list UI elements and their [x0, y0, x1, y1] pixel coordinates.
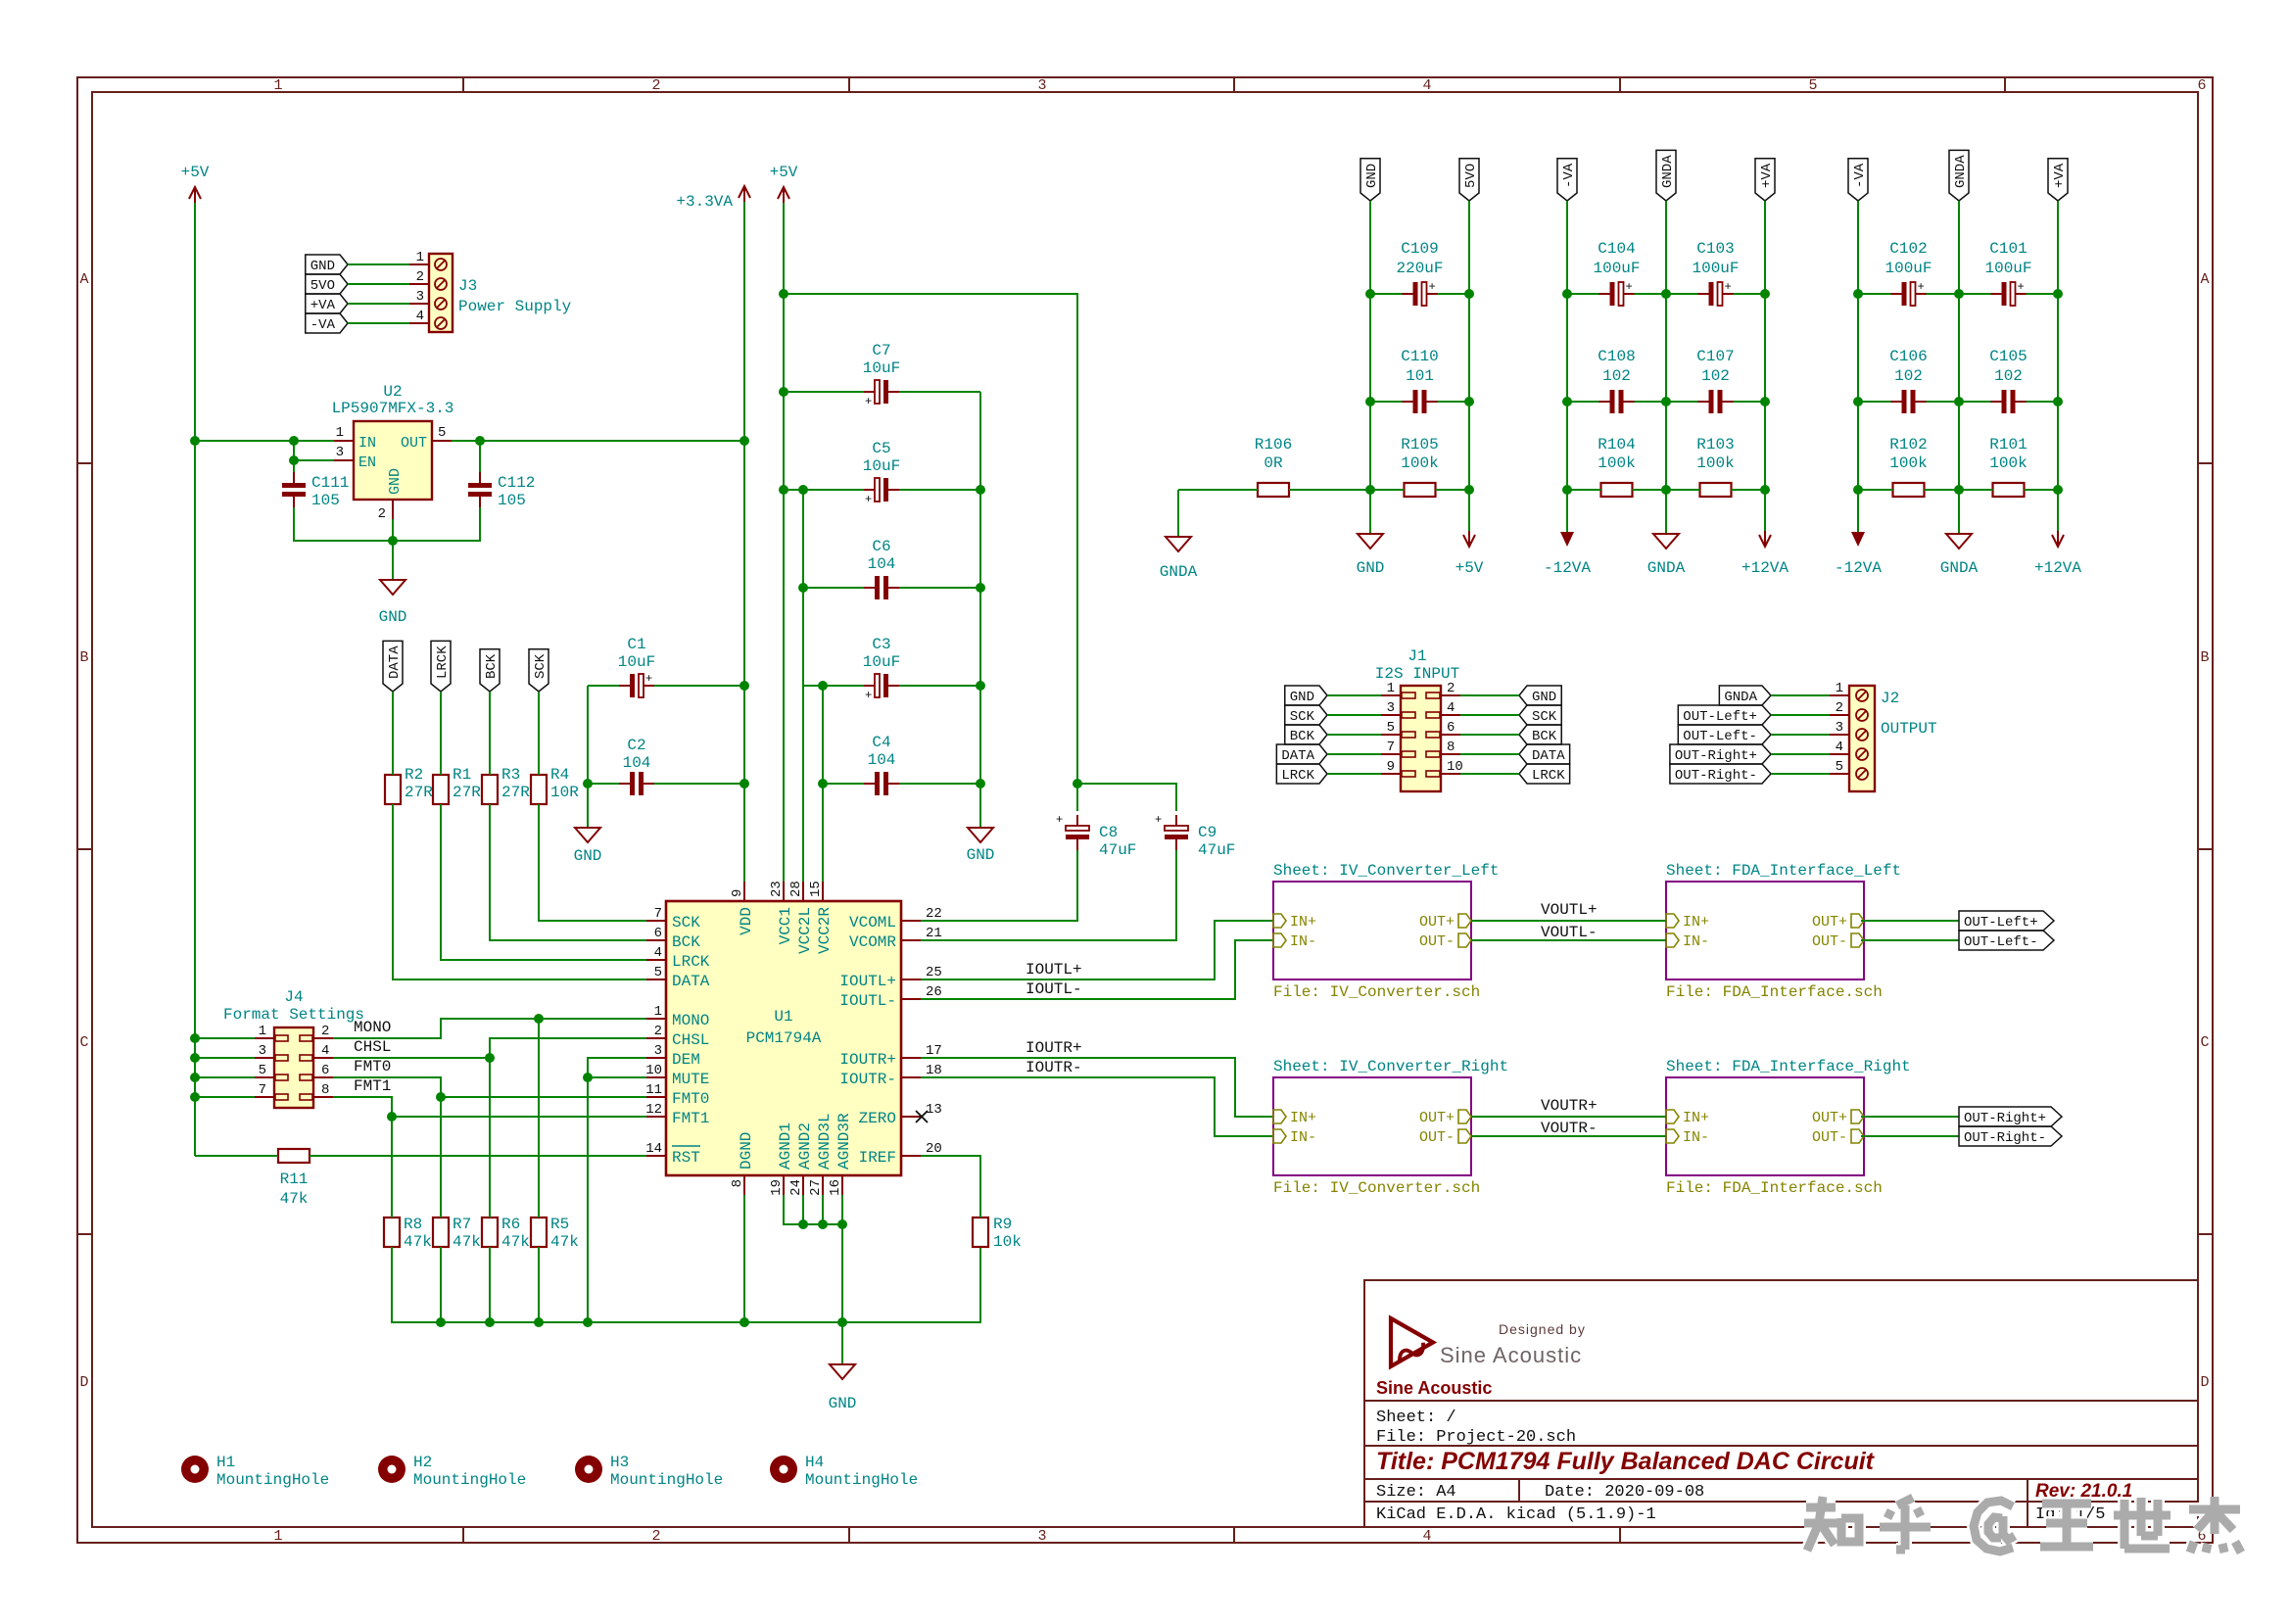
svg-text:FMT0: FMT0	[672, 1090, 709, 1108]
hierarchical label BCK	[480, 649, 500, 692]
svg-text:GNDA: GNDA	[1953, 155, 1969, 188]
svg-text:1: 1	[273, 1528, 282, 1545]
svg-text:IN: IN	[358, 435, 376, 452]
svg-text:25: 25	[926, 965, 942, 980]
svg-text:3: 3	[416, 289, 424, 305]
capacitor C8 47uF	[1056, 813, 1136, 859]
svg-text:SCK: SCK	[533, 653, 549, 679]
capacitor C104 100uF	[1593, 240, 1640, 306]
wire GNDA column 3	[1958, 201, 1960, 534]
net label CHSL	[354, 1038, 391, 1056]
net label FMT0	[354, 1058, 391, 1075]
wire -VA column 2	[1566, 201, 1568, 534]
svg-text:DATA: DATA	[387, 645, 403, 679]
svg-text:2: 2	[1447, 681, 1455, 696]
svg-text:FMT1: FMT1	[354, 1077, 391, 1095]
wire +VA column 3	[2057, 201, 2059, 534]
svg-text:Sheet: IV_Converter_Left: Sheet: IV_Converter_Left	[1273, 862, 1499, 880]
svg-text:+5V: +5V	[181, 164, 210, 181]
svg-text:7: 7	[259, 1082, 266, 1098]
svg-text:DATA: DATA	[672, 973, 710, 990]
svg-text:C106: C106	[1889, 348, 1927, 365]
svg-text:102: 102	[1894, 367, 1923, 385]
svg-text:47k: 47k	[453, 1233, 481, 1251]
svg-text:IOUTR+: IOUTR+	[1026, 1039, 1082, 1057]
svg-text:+: +	[645, 672, 652, 686]
power label -VA column 3	[1848, 159, 1868, 201]
svg-text:IOUTR-: IOUTR-	[839, 1071, 896, 1088]
svg-text:VCC2L: VCC2L	[796, 907, 814, 954]
junction C2 / VDD rail	[739, 779, 749, 788]
svg-text:3: 3	[654, 1043, 662, 1059]
svg-text:10uF: 10uF	[863, 359, 900, 377]
svg-text:H4: H4	[805, 1454, 824, 1471]
svg-text:Sheet: IV_Converter_Right: Sheet: IV_Converter_Right	[1273, 1058, 1508, 1075]
svg-text:2: 2	[416, 269, 424, 285]
mounting hole H4	[770, 1454, 918, 1489]
svg-text:U1: U1	[774, 1008, 792, 1026]
svg-text:J1: J1	[1407, 647, 1426, 665]
wire IOUTR- to IV sheet	[921, 1077, 1273, 1136]
wire +5V left rail vertical	[194, 203, 196, 1156]
svg-text:10k: 10k	[993, 1233, 1022, 1251]
svg-text:MONO: MONO	[354, 1019, 391, 1036]
svg-text:GNDA: GNDA	[1724, 690, 1757, 705]
svg-text:27R: 27R	[453, 784, 481, 801]
resistor R2 27R	[385, 766, 433, 804]
svg-text:VOUTR+: VOUTR+	[1541, 1097, 1598, 1115]
wire +5V rail to J4	[195, 1057, 255, 1059]
sheet FDA_Interface_Right	[1666, 1058, 1911, 1197]
wire VCOMR to C9	[921, 850, 1176, 940]
svg-text:GND: GND	[1357, 559, 1385, 577]
svg-text:Sine Acoustic: Sine Acoustic	[1376, 1378, 1492, 1398]
wire R4 to U1	[539, 804, 646, 921]
hierarchical label -VA at J3 pin	[306, 313, 348, 333]
svg-text:J4: J4	[284, 988, 303, 1006]
svg-text:AGND3R: AGND3R	[835, 1113, 853, 1170]
wire +5V rail to J4	[195, 1076, 255, 1078]
wire C5 right	[899, 489, 980, 491]
wire C8 bottom to VCOML	[1076, 850, 1078, 921]
svg-text:27R: 27R	[405, 784, 433, 801]
sheet IV_Converter_Right	[1273, 1058, 1508, 1197]
svg-text:47uF: 47uF	[1198, 841, 1235, 859]
svg-text:R1: R1	[453, 766, 471, 784]
hierarchical label GND at J3 pin	[306, 255, 348, 274]
svg-text:100k: 100k	[1401, 454, 1438, 472]
logo text Sine Acoustic gray	[1440, 1343, 1582, 1367]
wire C3 right	[899, 685, 980, 687]
wire net MONO J4.2 to U1.1	[333, 1019, 646, 1038]
svg-text:100uF: 100uF	[1884, 260, 1932, 277]
svg-text:BCK: BCK	[672, 933, 700, 951]
junction U2 GND / ground bus	[388, 536, 398, 546]
regulator U2 LP5907MFX-3.3	[332, 383, 454, 522]
svg-text:100k: 100k	[1696, 454, 1734, 472]
svg-text:File: IV_Converter.sch: File: IV_Converter.sch	[1273, 1179, 1480, 1197]
wire R3 top	[489, 692, 491, 775]
wire R7 top	[440, 1097, 442, 1218]
wire U2 ground bus to GND	[294, 507, 480, 541]
svg-text:LRCK: LRCK	[672, 953, 710, 971]
svg-text:105: 105	[498, 492, 526, 509]
wire R6 bottom	[489, 1247, 491, 1322]
svg-text:D: D	[79, 1374, 88, 1391]
junction C7	[779, 387, 788, 397]
svg-text:+5V: +5V	[1455, 559, 1484, 577]
svg-text:R103: R103	[1696, 436, 1734, 454]
svg-text:3: 3	[259, 1043, 266, 1059]
hierarchical label GNDA (to J2)	[1719, 686, 1771, 705]
svg-text:C8: C8	[1099, 824, 1118, 841]
svg-text:R102: R102	[1889, 436, 1927, 454]
svg-text:-12VA: -12VA	[1835, 559, 1882, 577]
svg-text:GNDA: GNDA	[1940, 559, 1979, 577]
svg-text:RST: RST	[672, 1149, 700, 1167]
wire OUT-Left- to J2	[1771, 734, 1830, 736]
svg-text:IREF: IREF	[859, 1149, 896, 1167]
wire C7 left	[784, 391, 864, 393]
svg-text:LRCK: LRCK	[1532, 768, 1565, 784]
svg-text:47k: 47k	[501, 1233, 530, 1251]
wire net FMT0 J4.6 to U1.11	[333, 1077, 646, 1097]
wire OUT-Right+ to J2	[1771, 753, 1830, 755]
svg-text:4: 4	[1422, 77, 1431, 94]
svg-text:ZERO: ZERO	[859, 1110, 896, 1127]
capacitor C9 47uF	[1155, 813, 1235, 859]
svg-text:4: 4	[1422, 1528, 1431, 1545]
svg-text:2: 2	[1836, 700, 1843, 716]
svg-text:R4: R4	[550, 766, 569, 784]
capacitor C4 104	[864, 734, 899, 795]
resistor R7 47k	[433, 1216, 481, 1251]
capacitor C102 100uF	[1884, 240, 1932, 306]
hierarchical label OUT-Left- (right)	[1959, 931, 2054, 950]
svg-text:OUT+: OUT+	[1419, 914, 1455, 931]
svg-text:4: 4	[1836, 740, 1843, 755]
svg-text:IOUTR-: IOUTR-	[1026, 1059, 1082, 1076]
power symbol GNDA	[1940, 534, 1979, 577]
wire C2 right to VDD rail	[654, 783, 744, 785]
power label GNDA column 3	[1949, 150, 1969, 201]
power flag +5V (left rail top)	[181, 164, 210, 203]
svg-text:OUT+: OUT+	[1812, 1110, 1847, 1126]
svg-text:C105: C105	[1989, 348, 2027, 365]
global label SCK (J1 right)	[1519, 705, 1561, 725]
mounting hole H1	[181, 1454, 329, 1489]
wire R7 bottom	[440, 1247, 442, 1322]
svg-text:Title: PCM1794 Fully Balanced: Title: PCM1794 Fully Balanced DAC Circui…	[1376, 1448, 1876, 1475]
capacitor C111 105	[282, 472, 349, 509]
svg-text:3: 3	[336, 445, 344, 460]
power flag +5V (VCC rail)	[770, 164, 798, 203]
svg-text:+: +	[1725, 280, 1732, 294]
wire C6 left	[803, 587, 864, 589]
title block frame	[1364, 1280, 2198, 1527]
wire 5VO column 1	[1468, 201, 1470, 534]
hierarchical label LRCK	[431, 641, 451, 692]
svg-text:C3: C3	[872, 636, 890, 653]
wire C3 left	[803, 685, 864, 687]
svg-text:C5: C5	[872, 440, 890, 457]
svg-text:Sheet: /: Sheet: /	[1376, 1409, 1456, 1427]
svg-text:6: 6	[321, 1063, 329, 1078]
svg-text:104: 104	[868, 555, 896, 573]
svg-text:10uF: 10uF	[863, 457, 900, 475]
wire C9 bottom to VCOMR	[1175, 850, 1177, 940]
svg-text:2: 2	[378, 506, 386, 522]
svg-text:C4: C4	[872, 734, 890, 751]
title block Sheet field	[1376, 1409, 1456, 1427]
wire +3.3VA / VDD rail vertical	[743, 202, 745, 882]
wire R5 bottom	[538, 1247, 540, 1322]
hierarchical label OUT-Left+ (right)	[1959, 911, 2054, 931]
wire FDA right OUT- to label	[1861, 1135, 1959, 1137]
wire VCC2R rail	[822, 686, 824, 882]
hierarchical label SCK	[529, 649, 549, 692]
power label +VA column 3	[2048, 159, 2068, 201]
wire GND column 1	[1369, 201, 1371, 534]
svg-text:Format Settings: Format Settings	[223, 1006, 364, 1024]
svg-text:DGND: DGND	[738, 1132, 755, 1170]
svg-text:C108: C108	[1598, 348, 1635, 365]
power symbol -12VA	[1544, 532, 1591, 577]
svg-text:BCK: BCK	[1290, 729, 1315, 744]
capacitor C103 100uF	[1692, 240, 1739, 306]
title block Rev field	[2035, 1481, 2132, 1502]
power symbol +12VA	[2034, 531, 2081, 577]
svg-text:8: 8	[1447, 740, 1455, 755]
sheet IV_Converter_Left	[1273, 862, 1499, 1001]
capacitor C106 102	[1889, 348, 1927, 413]
wire RST line through R11	[195, 1155, 278, 1157]
junction +3.3VA rail / U2 OUT	[739, 436, 749, 446]
mounting hole H3	[575, 1454, 723, 1489]
wire +5V rail to U2 IN	[195, 440, 334, 442]
wire R8 top	[391, 1117, 393, 1218]
net label IOUTR+	[1026, 1039, 1082, 1057]
wire OUT-Right- to J2	[1771, 773, 1830, 775]
junction VCC2R / C4 row	[818, 779, 828, 788]
svg-text:SCK: SCK	[1532, 709, 1557, 725]
svg-text:BCK: BCK	[484, 653, 500, 679]
junction +5V / VCOM branch	[779, 289, 788, 299]
svg-text:4: 4	[416, 309, 424, 324]
connector J3 Power Supply	[409, 250, 572, 332]
wire +VA column 2	[1764, 201, 1766, 534]
svg-text:KiCad E.D.A. kicad (5.1.9)-1: KiCad E.D.A. kicad (5.1.9)-1	[1376, 1505, 1656, 1524]
svg-text:2: 2	[651, 1528, 660, 1545]
svg-text:OUT+: OUT+	[1812, 914, 1847, 931]
junction DEM / MUTE	[583, 1073, 593, 1082]
wire C7 right	[899, 391, 980, 393]
wire +5V rail to J4	[195, 1096, 255, 1098]
svg-text:R7: R7	[453, 1216, 471, 1233]
svg-text:SCK: SCK	[672, 914, 700, 931]
svg-text:GND: GND	[310, 259, 335, 274]
net label MONO	[354, 1019, 391, 1036]
svg-text:OUT-Left-: OUT-Left-	[1964, 934, 2038, 950]
wire J1 to SCK	[1460, 714, 1519, 716]
svg-text:IN+: IN+	[1683, 1110, 1709, 1126]
svg-text:3: 3	[1836, 720, 1843, 736]
wire VOUTL+	[1471, 920, 1666, 922]
svg-text:GND: GND	[1364, 164, 1380, 188]
power label GNDA column 2	[1656, 150, 1676, 201]
svg-text:10: 10	[1447, 759, 1463, 775]
wire J1 to LRCK	[1460, 773, 1519, 775]
junction C2 left / GND drop	[583, 779, 593, 788]
svg-text:MountingHole: MountingHole	[610, 1471, 723, 1489]
junction gnd col C4	[976, 779, 985, 788]
resistor R102 100k	[1889, 436, 1927, 497]
logo Sine Acoustic triangle	[1391, 1318, 1433, 1366]
global label SCK (J1 left)	[1285, 705, 1327, 725]
wire cap-bank ground column	[979, 392, 981, 828]
net label VOUTL-	[1541, 924, 1598, 941]
svg-text:+: +	[2018, 280, 2025, 294]
svg-text:GNDA: GNDA	[1660, 155, 1676, 188]
svg-text:6: 6	[2197, 77, 2206, 94]
svg-text:5: 5	[259, 1063, 266, 1078]
junction CHSL / R6	[485, 1053, 495, 1063]
svg-text:-VA: -VA	[1852, 163, 1868, 188]
svg-text:IN+: IN+	[1290, 914, 1316, 931]
svg-text:OUT-Left-: OUT-Left-	[1683, 729, 1757, 744]
svg-text:Size: A4: Size: A4	[1376, 1483, 1456, 1502]
wire OUT-Left+ to J2	[1771, 714, 1830, 716]
svg-text:104: 104	[868, 751, 896, 769]
svg-text:OUT-: OUT-	[1812, 1129, 1847, 1146]
wire bottom ground rail	[392, 1247, 980, 1322]
svg-text:20: 20	[926, 1141, 942, 1157]
svg-text:OUT-Right+: OUT-Right+	[1675, 748, 1757, 764]
svg-text:DEM: DEM	[672, 1051, 700, 1069]
svg-text:-VA: -VA	[310, 317, 336, 333]
svg-text:R105: R105	[1401, 436, 1438, 454]
resistor R8 47k	[384, 1216, 432, 1251]
svg-text:100k: 100k	[1989, 454, 2027, 472]
svg-text:+: +	[865, 395, 872, 408]
svg-text:100uF: 100uF	[1984, 260, 2031, 277]
svg-text:File: Project-20.sch: File: Project-20.sch	[1376, 1428, 1576, 1447]
wire C2 left / GND drop	[587, 686, 589, 828]
mounting hole H2	[378, 1454, 526, 1489]
resistor R1 27R	[433, 766, 481, 804]
capacitor C101 100uF	[1984, 240, 2031, 306]
wire DATA to J1	[1327, 753, 1381, 755]
svg-text:+: +	[1918, 280, 1925, 294]
svg-text:OUT-Right-: OUT-Right-	[1675, 768, 1757, 784]
svg-text:OUT-: OUT-	[1419, 1129, 1455, 1146]
wire -VA column 3	[1857, 201, 1859, 534]
resistor R105 100k	[1401, 436, 1438, 497]
junction FMT1 / R8	[387, 1112, 397, 1122]
svg-text:J2: J2	[1881, 690, 1899, 707]
global label DATA (J1 right)	[1519, 744, 1570, 764]
wire C1 right to VDD rail	[654, 685, 744, 687]
svg-text:File: FDA_Interface.sch: File: FDA_Interface.sch	[1666, 1179, 1883, 1197]
svg-text:GNDA: GNDA	[1647, 559, 1686, 577]
wire C5 left	[784, 489, 864, 491]
svg-text:GND: GND	[829, 1395, 857, 1412]
wire +5V rail to J4	[195, 1037, 255, 1039]
resistor R5 47k	[531, 1216, 579, 1251]
junction U2 input / C111	[289, 436, 299, 446]
svg-text:GNDA: GNDA	[1160, 563, 1198, 581]
title block KiCad version field	[1376, 1505, 1656, 1524]
svg-text:B: B	[2200, 649, 2209, 666]
svg-text:47k: 47k	[404, 1233, 432, 1251]
wire to C8 top	[1076, 784, 1078, 811]
ground symbol GND under C1 C2	[574, 828, 602, 865]
svg-text:22: 22	[926, 906, 942, 922]
svg-text:A: A	[79, 271, 88, 288]
wire VCC2L rail	[802, 490, 804, 882]
svg-text:IN-: IN-	[1290, 1129, 1316, 1146]
title block company Sine Acoustic	[1376, 1378, 1492, 1398]
junction DEM/MUTE drop	[583, 1317, 593, 1327]
svg-text:24: 24	[788, 1179, 804, 1196]
svg-text:C111: C111	[311, 474, 349, 492]
power flag +3.3VA	[676, 186, 750, 211]
wire net FMT1 J4.8 to U1.12	[333, 1097, 646, 1117]
wire +5V branch to VCOM caps	[784, 294, 1077, 784]
svg-text:C1: C1	[627, 636, 645, 653]
svg-text:R3: R3	[501, 766, 520, 784]
logo text Designed by	[1499, 1321, 1586, 1337]
svg-text:H1: H1	[216, 1454, 235, 1471]
svg-text:IOUTL-: IOUTL-	[839, 992, 896, 1010]
svg-text:+12VA: +12VA	[1741, 559, 1789, 577]
svg-text:23: 23	[769, 881, 785, 897]
svg-text:LRCK: LRCK	[435, 645, 451, 679]
svg-text:R2: R2	[405, 766, 423, 784]
capacitor C105 102	[1989, 348, 2027, 413]
sheet FDA_Interface_Left	[1666, 862, 1901, 1001]
svg-text:FMT1: FMT1	[672, 1110, 709, 1127]
svg-text:26: 26	[926, 984, 942, 1000]
svg-text:+VA: +VA	[1759, 163, 1775, 188]
svg-text:1: 1	[273, 77, 282, 94]
svg-text:-12VA: -12VA	[1544, 559, 1591, 577]
ground symbol GND under U2	[379, 580, 407, 626]
svg-text:OUT-Right-: OUT-Right-	[1964, 1130, 2046, 1146]
global label BCK (J1 left)	[1285, 725, 1327, 744]
svg-text:13: 13	[926, 1102, 942, 1118]
wire R2 to U1	[393, 804, 646, 979]
resistor R9 10k	[973, 1216, 1022, 1251]
junction C1 / VDD rail	[739, 681, 749, 691]
svg-text:VDD: VDD	[738, 907, 755, 935]
svg-text:9: 9	[730, 889, 745, 897]
net label VOUTL+	[1541, 901, 1598, 919]
junction gnd col C6	[976, 583, 985, 593]
svg-text:10: 10	[645, 1063, 662, 1078]
wire IOUTR+ to IV sheet	[921, 1058, 1273, 1117]
svg-text:C: C	[79, 1034, 88, 1051]
wire C1 left to GND drop	[588, 685, 619, 687]
svg-text:OUT-Right+: OUT-Right+	[1964, 1111, 2046, 1126]
power label GND column 1	[1360, 159, 1380, 201]
svg-text:105: 105	[311, 492, 340, 509]
wire R5 top	[538, 1019, 540, 1218]
svg-text:18: 18	[926, 1063, 942, 1078]
svg-text:MountingHole: MountingHole	[413, 1471, 526, 1489]
svg-text:Date: 2020-09-08: Date: 2020-09-08	[1545, 1483, 1704, 1502]
capacitor C112 105	[468, 472, 535, 509]
